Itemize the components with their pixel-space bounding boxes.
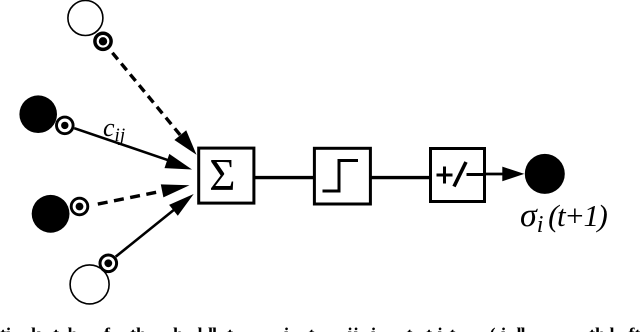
minus sign of +/-	[467, 173, 485, 176]
wire: solid arrow from synapse c_i2 to sum box	[74, 128, 192, 169]
synapse c_i4 (ring with dot)	[100, 255, 117, 272]
svg-text:Σ: Σ	[209, 150, 235, 200]
input node sigma_3 (filled circle)	[32, 195, 70, 233]
synapse c_i1 (ring with dot)	[95, 33, 111, 49]
slash of +/-	[454, 162, 466, 187]
output node sigma_i(t+1) (filled circle)	[525, 154, 565, 194]
wire: dashed arrow from synapse c_i1 to sum box	[112, 53, 196, 155]
summation box U-sum	[199, 148, 254, 203]
threshold (step function) box	[314, 148, 370, 204]
output state box +/-	[431, 149, 485, 202]
plus sign of +/-	[437, 167, 453, 184]
wire: +/- box to output node with arrowhead	[486, 167, 524, 182]
synapse c_i3 (ring with dot)	[71, 198, 88, 215]
input node sigma_4 (open circle, bottom)	[70, 265, 109, 304]
step function glyph	[323, 161, 359, 192]
input node sigma_1 (open circle, top left)	[68, 1, 103, 36]
wire: threshold box to +/- box	[371, 176, 429, 179]
wire: solid arrow from synapse c_i4 to sum box	[116, 194, 194, 257]
input node sigma_2 (filled circle)	[19, 95, 57, 133]
wire: sum box to threshold box	[255, 176, 314, 179]
wire: dashed arrow from synapse c_i3 to sum box	[98, 184, 190, 204]
svg-text:σi (t+1): σi (t+1)	[520, 197, 608, 238]
synapse c_i2 (ring with dot)	[57, 117, 74, 134]
